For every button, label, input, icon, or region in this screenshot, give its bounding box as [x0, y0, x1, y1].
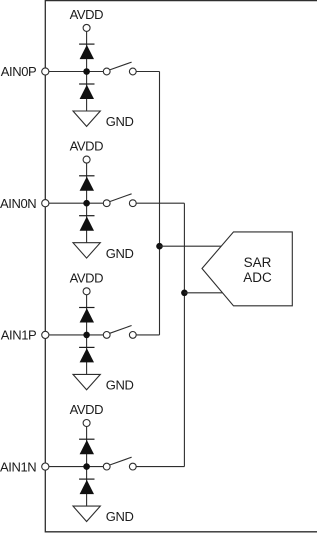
svg-text:AVDD: AVDD — [70, 270, 104, 285]
svg-text:GND: GND — [106, 509, 134, 524]
ground symbol (row3) — [73, 374, 100, 389]
diode to AVDD (row4) — [79, 439, 94, 454]
svg-text:GND: GND — [106, 114, 134, 129]
diode to AVDD (row3) — [79, 308, 94, 323]
ground symbol (row1) — [73, 111, 100, 126]
svg-text:AVDD: AVDD — [70, 139, 104, 154]
ground symbol (row2) — [73, 243, 100, 258]
junction node (row4) — [83, 463, 90, 470]
ground symbol (row4) — [73, 506, 100, 521]
svg-text:AVDD: AVDD — [70, 7, 104, 22]
diode from GND (row4) — [79, 479, 94, 494]
pin AIN1P — [42, 331, 49, 338]
switch S2 (row2) — [103, 194, 136, 207]
wire switch S1 to P bus — [136, 71, 159, 73]
svg-text:GND: GND — [106, 378, 134, 393]
P bus vertical wire — [159, 72, 161, 335]
wire P bus to ADC — [160, 245, 222, 247]
junction node (row2) — [83, 200, 90, 207]
svg-text:AVDD: AVDD — [70, 402, 104, 417]
wire pin to switch (row1) — [49, 71, 104, 73]
junction P bus — [156, 243, 163, 250]
AVDD terminal (row2) — [83, 156, 90, 163]
junction N bus — [181, 290, 188, 297]
diode from GND (row1) — [79, 84, 94, 99]
switch S1 (row1) — [103, 62, 136, 75]
wire AVDD to node (row3) — [86, 295, 88, 375]
svg-text:ADC: ADC — [243, 270, 272, 285]
junction node (row1) — [83, 68, 90, 75]
svg-text:AIN0N: AIN0N — [0, 196, 36, 211]
wire AVDD to node (row4) — [86, 427, 88, 507]
SAR ADC block — [202, 232, 292, 306]
wire switch S4 to N bus — [136, 466, 184, 468]
pin AIN0P — [42, 68, 49, 75]
wire AVDD to node (row2) — [86, 163, 88, 243]
svg-text:SAR: SAR — [244, 255, 272, 270]
wire switch S2 to N bus — [136, 202, 184, 204]
AVDD terminal (row3) — [83, 288, 90, 295]
wire pin to switch (row3) — [49, 334, 104, 336]
svg-text:AIN0P: AIN0P — [1, 64, 37, 79]
N bus vertical wire — [183, 203, 185, 466]
diode to AVDD (row2) — [79, 176, 94, 191]
junction node (row3) — [83, 332, 90, 339]
wire AVDD to node (row1) — [86, 31, 88, 111]
diode from GND (row3) — [79, 347, 94, 362]
AVDD terminal (row1) — [83, 24, 90, 31]
svg-text:GND: GND — [106, 246, 134, 261]
pin AIN0N — [42, 200, 49, 207]
pin AIN1N — [42, 463, 49, 470]
wire switch S3 to P bus — [136, 334, 159, 336]
switch S4 (row4) — [103, 457, 136, 470]
switch S3 (row3) — [103, 326, 136, 339]
wire N bus to ADC — [184, 292, 222, 294]
diode from GND (row2) — [79, 216, 94, 231]
diode to AVDD (row1) — [79, 44, 94, 59]
svg-text:AIN1P: AIN1P — [1, 328, 37, 343]
AVDD terminal (row4) — [83, 420, 90, 427]
wire pin to switch (row4) — [49, 466, 104, 468]
wire pin to switch (row2) — [49, 202, 104, 204]
svg-text:AIN1N: AIN1N — [0, 459, 36, 474]
